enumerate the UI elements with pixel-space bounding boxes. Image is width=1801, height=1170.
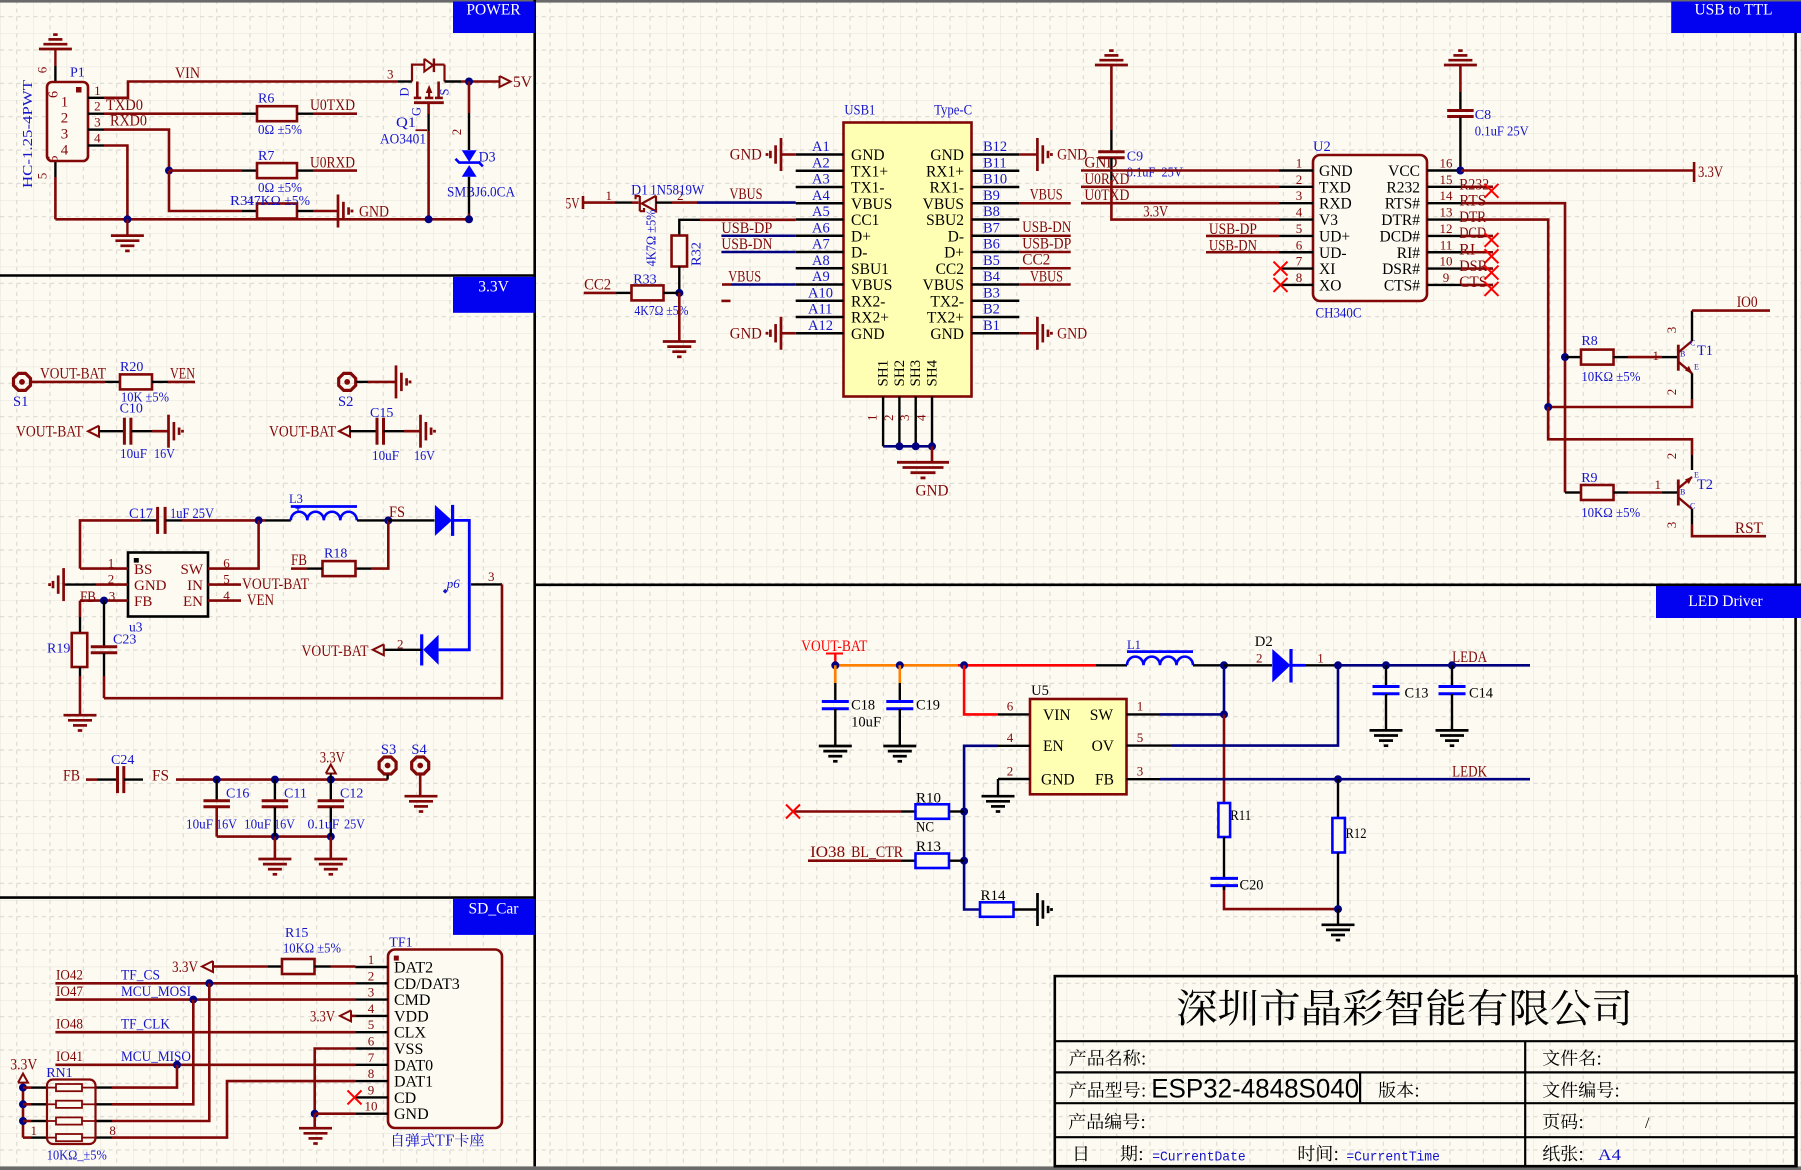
label file name xyxy=(1543,1049,1600,1066)
svg-text:VOUT-BAT: VOUT-BAT xyxy=(242,576,309,593)
label date2 xyxy=(1121,1145,1142,1161)
svg-text:VBUS: VBUS xyxy=(923,277,964,294)
capacitor C17 xyxy=(80,520,141,568)
wire to ground xyxy=(931,446,934,461)
ground below C13 xyxy=(1370,729,1403,732)
pin 8 XO xyxy=(1279,284,1313,286)
capacitor C9 xyxy=(1110,65,1113,130)
title block border xyxy=(1055,976,1797,1166)
svg-text:CD: CD xyxy=(394,1090,416,1107)
svg-text:RX2+: RX2+ xyxy=(851,310,889,327)
svg-text:10KΩ ±5%: 10KΩ ±5% xyxy=(1581,370,1640,385)
svg-text:POWER: POWER xyxy=(466,2,521,19)
capacitor C18 xyxy=(834,665,837,683)
junction xyxy=(255,516,263,524)
svg-text:3.3V: 3.3V xyxy=(1698,164,1724,181)
junction xyxy=(960,808,968,816)
wire S2 to ground xyxy=(356,381,368,383)
svg-text:2: 2 xyxy=(368,968,375,983)
svg-text:R7: R7 xyxy=(258,149,274,164)
pin 15 R232 xyxy=(1427,186,1461,188)
wire USB-DN pin6 xyxy=(1206,251,1279,254)
svg-text:10uF: 10uF xyxy=(120,447,147,462)
svg-text:/: / xyxy=(1645,1115,1650,1132)
svg-text:SW: SW xyxy=(181,562,204,578)
junction xyxy=(960,661,968,669)
ground below R12 xyxy=(1322,923,1355,926)
junction xyxy=(1544,403,1552,411)
pin 9 CTS# xyxy=(1427,284,1461,286)
svg-text:16V: 16V xyxy=(216,818,237,833)
svg-text:GND: GND xyxy=(930,147,964,164)
pin B11 xyxy=(972,170,1020,172)
capacitor C12 xyxy=(330,780,332,800)
svg-text:CMD: CMD xyxy=(394,992,430,1009)
svg-text:3: 3 xyxy=(368,985,375,1000)
pin A12 xyxy=(796,332,844,334)
svg-text:CD/DAT3: CD/DAT3 xyxy=(394,976,460,993)
ic U5 xyxy=(1030,699,1127,794)
svg-text:R12: R12 xyxy=(1346,826,1367,842)
resistor R10 blue xyxy=(901,810,916,812)
pin stubs P1 xyxy=(88,97,104,99)
svg-text:3: 3 xyxy=(1296,188,1303,203)
svg-text:9: 9 xyxy=(368,1082,375,1097)
resistor R31 xyxy=(242,210,257,212)
wire CC1 A5 xyxy=(700,219,796,222)
pin 4 VDD xyxy=(355,1015,388,1017)
svg-text:TXD0: TXD0 xyxy=(106,97,143,114)
section divider 3.3V/SD_Car xyxy=(0,896,535,899)
power ground right of S2 xyxy=(395,365,398,398)
bottom bus xyxy=(217,835,331,838)
junction xyxy=(895,442,903,450)
capacitor C24 xyxy=(97,778,117,780)
section tab SD_Car xyxy=(453,899,535,935)
power ground at A1 xyxy=(781,153,796,156)
svg-text:3.3V: 3.3V xyxy=(172,959,199,976)
test pad S3 xyxy=(379,757,396,774)
resistor R14 blue xyxy=(980,902,1014,917)
svg-text:1: 1 xyxy=(61,95,69,111)
no connect R10 input xyxy=(793,810,901,813)
svg-text:10uF: 10uF xyxy=(186,818,213,833)
svg-text:0.1uF 25V: 0.1uF 25V xyxy=(1475,124,1529,139)
wire USB-DN A7 xyxy=(721,251,795,254)
svg-text:C12: C12 xyxy=(340,787,363,802)
power ground right of R31 xyxy=(337,195,340,228)
svg-text:R20: R20 xyxy=(120,360,143,375)
wire U0TXD xyxy=(313,112,357,115)
svg-text:VOUT-BAT: VOUT-BAT xyxy=(302,643,369,660)
svg-text:=CurrentDate: =CurrentDate xyxy=(1152,1150,1246,1166)
svg-text:13: 13 xyxy=(1440,205,1453,220)
svg-text:VBUS: VBUS xyxy=(730,186,763,203)
wire USB-DP B6 xyxy=(1019,251,1070,254)
net stub minus A10 xyxy=(721,300,730,303)
svg-text:GND: GND xyxy=(1084,155,1117,172)
svg-text:TF1: TF1 xyxy=(389,936,412,951)
svg-text:R13: R13 xyxy=(916,839,941,855)
power ground left of U3 xyxy=(62,568,65,601)
svg-text:RX2-: RX2- xyxy=(851,293,885,310)
svg-text:B9: B9 xyxy=(983,188,1000,204)
svg-text:GND: GND xyxy=(359,204,389,221)
svg-text:10KΩ_±5%: 10KΩ_±5% xyxy=(47,1149,107,1164)
svg-text:VOUT-BAT: VOUT-BAT xyxy=(40,366,106,383)
svg-text:1: 1 xyxy=(1655,477,1662,492)
pin A7 xyxy=(796,251,844,253)
svg-text:IO38: IO38 xyxy=(810,844,845,861)
svg-text:DCD#: DCD# xyxy=(1380,228,1421,245)
svg-text:16: 16 xyxy=(1440,156,1454,171)
junction xyxy=(675,289,683,297)
junction xyxy=(1334,905,1342,913)
svg-text:XO: XO xyxy=(1319,277,1341,294)
wire to R31 xyxy=(169,171,242,211)
svg-text:EN: EN xyxy=(183,594,203,610)
svg-text:USB-DN: USB-DN xyxy=(721,236,772,253)
capacitor C11 xyxy=(274,780,276,800)
svg-text:SH4: SH4 xyxy=(925,359,941,386)
svg-text:B2: B2 xyxy=(983,302,1000,318)
junction xyxy=(327,776,335,784)
wire FS bus xyxy=(176,778,388,781)
glyph label TF holder xyxy=(393,1133,484,1147)
svg-text:EN: EN xyxy=(1043,738,1064,755)
pin 13 DTR# xyxy=(1427,218,1461,220)
svg-text:3: 3 xyxy=(61,127,69,143)
wire RXD0 xyxy=(104,130,169,171)
regulator U3 xyxy=(128,553,208,617)
junction xyxy=(1561,353,1569,361)
svg-text:A7: A7 xyxy=(812,237,830,253)
svg-text:USB to TTL: USB to TTL xyxy=(1694,2,1772,19)
label product model xyxy=(1069,1081,1144,1098)
ground below C11 xyxy=(274,837,277,859)
pin 2 CD/DAT3 xyxy=(355,982,388,984)
svg-text:3: 3 xyxy=(1664,522,1679,529)
svg-text:10KΩ ±5%: 10KΩ ±5% xyxy=(1581,506,1640,521)
resistor R8 xyxy=(1565,356,1581,358)
svg-text:3: 3 xyxy=(387,67,394,82)
svg-text:C10: C10 xyxy=(120,402,143,417)
inverted ground above C8 xyxy=(1444,64,1477,67)
wire FB LEDK xyxy=(1127,778,1161,780)
svg-text:R8: R8 xyxy=(1581,334,1597,349)
label paper xyxy=(1543,1145,1582,1162)
wire Q1 source to 5V xyxy=(445,80,462,82)
wire VIN xyxy=(104,82,398,98)
svg-text:B: B xyxy=(1680,350,1685,359)
svg-text:Q1: Q1 xyxy=(396,115,416,131)
power ground right of C15 xyxy=(419,415,422,448)
svg-text:A6: A6 xyxy=(812,220,830,236)
junction xyxy=(1382,661,1390,669)
svg-text:B10: B10 xyxy=(983,172,1007,188)
svg-text:3: 3 xyxy=(94,114,101,129)
inductor L3 xyxy=(265,519,291,521)
ground below TF1 xyxy=(313,1114,316,1128)
wire C20 to ground node xyxy=(1224,886,1338,909)
wire C23 to loop xyxy=(103,653,105,676)
svg-text:LED Driver: LED Driver xyxy=(1688,593,1763,610)
svg-text:15: 15 xyxy=(1440,172,1453,187)
ground below C12 xyxy=(329,837,332,859)
wire to GND xyxy=(313,210,338,213)
svg-text:2: 2 xyxy=(1296,172,1303,187)
pin B6 xyxy=(972,251,1020,253)
pin A4 xyxy=(796,202,844,204)
svg-text:GND: GND xyxy=(851,326,885,343)
capacitor C23 xyxy=(91,645,118,648)
wire to D3 xyxy=(468,82,471,114)
svg-text:5: 5 xyxy=(1137,730,1144,745)
svg-text:S3: S3 xyxy=(381,742,396,758)
junction xyxy=(1334,661,1342,669)
svg-text:GND: GND xyxy=(1041,771,1075,788)
svg-text:C16: C16 xyxy=(226,787,249,802)
wire DSR nc xyxy=(1461,267,1493,270)
shield bus wire xyxy=(883,445,932,448)
pin A2 xyxy=(796,170,844,172)
svg-text:SBU2: SBU2 xyxy=(926,212,964,229)
svg-text:C15: C15 xyxy=(370,406,393,421)
svg-text:TF_CS: TF_CS xyxy=(121,968,160,984)
wire IO48 TF_CLK xyxy=(55,1031,355,1034)
resistor R9 xyxy=(1565,491,1581,493)
svg-text:1: 1 xyxy=(865,415,880,422)
svg-text:VOUT-BAT: VOUT-BAT xyxy=(269,424,336,441)
svg-text:1: 1 xyxy=(94,83,101,98)
svg-text:1: 1 xyxy=(1653,348,1660,363)
svg-text:GND: GND xyxy=(134,578,167,594)
svg-text:VOUT-BAT: VOUT-BAT xyxy=(16,424,83,441)
tvs diode D3 SMBJ6.0CA xyxy=(462,150,477,162)
svg-text:CC1: CC1 xyxy=(851,212,879,229)
vertical wire to RN1 row3 xyxy=(112,983,209,1121)
svg-text:VBUS: VBUS xyxy=(1030,187,1063,204)
svg-text:VBUS: VBUS xyxy=(923,196,964,213)
wire USB-DP pin5 xyxy=(1206,235,1279,238)
section divider POWER/3.3V xyxy=(0,274,535,277)
transistor T2 xyxy=(1677,480,1680,506)
svg-text:A10: A10 xyxy=(808,285,833,301)
resistor R6 xyxy=(242,112,257,114)
svg-text:D-: D- xyxy=(948,228,964,245)
svg-text:SW: SW xyxy=(1090,707,1114,724)
pin 2 TXD xyxy=(1279,186,1313,188)
resistor R19 xyxy=(79,617,81,633)
wire R33 junction to ground xyxy=(678,293,681,341)
svg-text:0.1uF: 0.1uF xyxy=(308,818,340,833)
title block rows xyxy=(1055,1040,1797,1042)
label page number xyxy=(1543,1113,1582,1129)
svg-text:FS: FS xyxy=(152,768,169,785)
svg-text:TF_CLK: TF_CLK xyxy=(121,1016,170,1032)
junction FS xyxy=(384,516,392,524)
svg-text:USB-DN: USB-DN xyxy=(1209,237,1257,254)
svg-text:3: 3 xyxy=(488,569,495,584)
wire VBUS B4 xyxy=(1019,283,1070,286)
wire 3.3V to RN1 pins xyxy=(22,1083,25,1138)
junction xyxy=(19,1117,27,1125)
svg-text:RI: RI xyxy=(1459,242,1475,259)
pin 10 GND xyxy=(355,1112,388,1114)
svg-text:OV: OV xyxy=(1092,738,1115,755)
inductor L1 xyxy=(1096,664,1127,666)
capacitor C20 xyxy=(1210,877,1238,880)
resistor R11 blue xyxy=(1218,803,1230,837)
svg-text:5V: 5V xyxy=(566,196,581,213)
svg-text:B11: B11 xyxy=(983,155,1007,171)
svg-text:3.3V: 3.3V xyxy=(478,279,509,296)
wire to ground xyxy=(1337,909,1339,924)
label product number xyxy=(1069,1113,1144,1130)
svg-text:S1: S1 xyxy=(13,394,28,410)
svg-text:SH2: SH2 xyxy=(892,360,908,387)
svg-text:8: 8 xyxy=(109,1123,116,1138)
svg-text:2: 2 xyxy=(1256,651,1263,666)
svg-text:CTS: CTS xyxy=(1459,274,1487,291)
svg-text:0Ω ±5%: 0Ω ±5% xyxy=(258,123,302,138)
junction xyxy=(213,776,221,784)
capacitor C15 xyxy=(350,430,377,432)
svg-text:GND: GND xyxy=(930,326,964,343)
diode blue bottom xyxy=(423,635,438,665)
svg-text:IN: IN xyxy=(187,578,203,594)
svg-text:5: 5 xyxy=(368,1017,375,1032)
svg-text:2: 2 xyxy=(1664,389,1679,396)
wire IO38 BL_CTR xyxy=(808,859,901,862)
svg-text:8: 8 xyxy=(368,1066,375,1081)
svg-text:CC2: CC2 xyxy=(584,277,611,294)
svg-text:B4: B4 xyxy=(983,269,1001,285)
svg-text:VOUT-BAT: VOUT-BAT xyxy=(801,638,867,655)
svg-text:VBUS: VBUS xyxy=(851,277,892,294)
svg-text:D: D xyxy=(398,87,412,96)
svg-text:U2: U2 xyxy=(1313,139,1331,155)
ground below C19 xyxy=(883,745,916,748)
junction xyxy=(327,833,335,841)
wire GND pin2 xyxy=(998,778,1030,780)
pin 7 DAT0 xyxy=(355,1064,388,1066)
svg-text:D3: D3 xyxy=(479,150,496,166)
wire U0RXD xyxy=(313,169,357,172)
svg-text:AO3401: AO3401 xyxy=(380,132,426,148)
wire VBUS A4 xyxy=(656,201,672,203)
svg-text:FB: FB xyxy=(291,552,307,569)
ground below USB1 xyxy=(897,461,949,464)
wire OV to LEDA node xyxy=(1127,744,1173,746)
svg-text:4: 4 xyxy=(368,1001,375,1016)
pin A10 xyxy=(796,300,844,302)
junction xyxy=(100,597,108,605)
wire IN pin5 VOUT-BAT xyxy=(208,583,241,586)
svg-text:BL_CTR: BL_CTR xyxy=(851,844,904,861)
svg-text:4: 4 xyxy=(61,143,69,159)
svg-text:S4: S4 xyxy=(411,742,427,758)
svg-text:VBUS: VBUS xyxy=(728,269,761,286)
section divider USB/LED xyxy=(535,583,1801,586)
capacitor C10 xyxy=(99,430,124,432)
svg-text:3.3V: 3.3V xyxy=(1143,204,1169,221)
svg-text:1: 1 xyxy=(1317,651,1324,666)
junction xyxy=(896,661,904,669)
section tab USB to TTL xyxy=(1671,2,1801,34)
svg-text:S: S xyxy=(438,88,452,95)
pin 10 DSR# xyxy=(1427,267,1461,269)
wire RI nc xyxy=(1461,251,1493,254)
capacitor C8 xyxy=(1459,65,1462,92)
inverted ground above C9 xyxy=(1095,64,1128,67)
resistor R20 xyxy=(120,374,152,389)
svg-text:TX1+: TX1+ xyxy=(851,163,888,180)
svg-text:Type-C: Type-C xyxy=(934,103,972,119)
junction xyxy=(960,857,968,865)
svg-text:C17: C17 xyxy=(129,506,153,522)
svg-text:R15: R15 xyxy=(285,926,308,941)
svg-text:=CurrentTime: =CurrentTime xyxy=(1346,1150,1440,1166)
svg-text:C24: C24 xyxy=(111,753,134,768)
svg-text:25V: 25V xyxy=(344,818,365,833)
svg-text:C13: C13 xyxy=(1405,686,1429,702)
svg-text:4K7Ω ±5%: 4K7Ω ±5% xyxy=(645,209,660,266)
pin B4 xyxy=(972,283,1020,285)
pin B9 xyxy=(972,202,1020,204)
svg-text:VCC: VCC xyxy=(1388,163,1420,180)
wire VCC to 3.3V xyxy=(1461,169,1694,172)
pin A3 xyxy=(796,186,844,188)
power ground right of R14 xyxy=(1036,893,1039,926)
svg-text:SBU1: SBU1 xyxy=(851,261,889,278)
svg-text:CH340C: CH340C xyxy=(1316,306,1362,322)
svg-text:E: E xyxy=(1694,363,1699,372)
junction xyxy=(912,442,920,450)
svg-text:V3: V3 xyxy=(1319,212,1338,229)
wire FB pin3 xyxy=(80,599,128,602)
svg-text:VIN: VIN xyxy=(175,65,200,82)
wire RN1 row4 to DAT1 xyxy=(112,1081,355,1138)
svg-text:2: 2 xyxy=(449,129,464,136)
svg-text:2: 2 xyxy=(94,99,101,114)
pin 14 RTS# xyxy=(1427,202,1461,204)
svg-text:DAT2: DAT2 xyxy=(394,960,433,977)
svg-text:U5: U5 xyxy=(1031,683,1049,699)
svg-text:B1: B1 xyxy=(983,318,1000,334)
ground below R19 xyxy=(64,714,97,717)
wire LEDA xyxy=(1338,664,1530,667)
resistor R32 xyxy=(672,236,688,267)
svg-text:S2: S2 xyxy=(338,394,353,410)
svg-text:3.3V: 3.3V xyxy=(320,750,346,767)
svg-text:MCU_MOSI: MCU_MOSI xyxy=(121,984,191,1000)
pin 5 CLX xyxy=(355,1031,388,1033)
vertical wire to RN1 row1 xyxy=(112,1065,177,1088)
title block version divider xyxy=(1359,1072,1361,1103)
svg-text:2: 2 xyxy=(1664,453,1679,460)
wire node down to R11 xyxy=(1223,714,1226,803)
svg-text:VIN: VIN xyxy=(1043,707,1071,724)
wire U0RXD pin2 xyxy=(1081,186,1279,189)
svg-text:C23: C23 xyxy=(113,633,136,648)
svg-text:L3: L3 xyxy=(289,492,303,506)
svg-text:B6: B6 xyxy=(983,237,1000,253)
junction xyxy=(1220,710,1228,718)
svg-text:0.1uF 25V: 0.1uF 25V xyxy=(1127,166,1183,181)
svg-text:USB-DN: USB-DN xyxy=(1022,219,1071,236)
svg-text:U0RXD: U0RXD xyxy=(310,155,355,172)
